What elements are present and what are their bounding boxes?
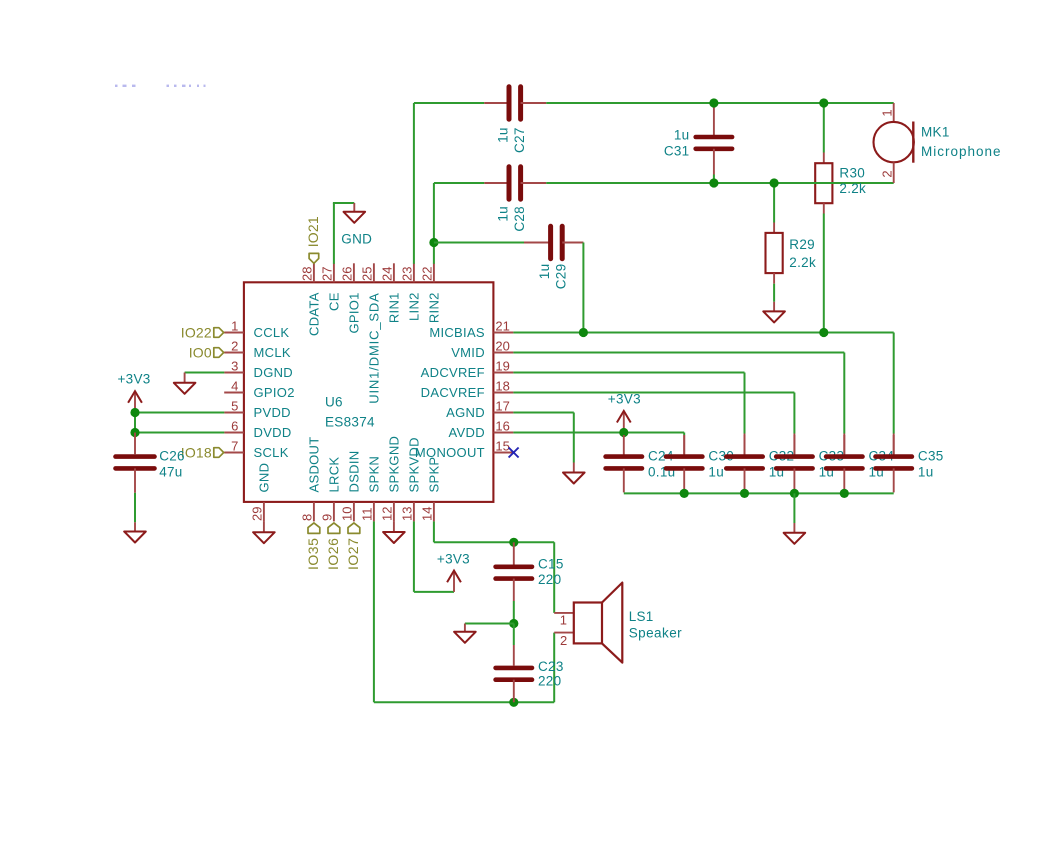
junction R29 top xyxy=(770,178,779,187)
svg-text:IO21: IO21 xyxy=(305,216,321,247)
capacitor C30 xyxy=(683,435,685,457)
svg-text:1: 1 xyxy=(880,109,895,116)
svg-text:29: 29 xyxy=(250,507,265,521)
pin 5 PVDD xyxy=(224,412,244,414)
svg-text:2: 2 xyxy=(560,633,567,648)
wire DVDD xyxy=(135,432,224,434)
svg-text:CCLK: CCLK xyxy=(254,325,290,340)
svg-text:SPKN: SPKN xyxy=(367,456,382,493)
svg-text:22: 22 xyxy=(420,267,435,281)
svg-text:11: 11 xyxy=(360,508,375,522)
svg-text:14: 14 xyxy=(420,507,435,521)
svg-text:DGND: DGND xyxy=(254,365,293,380)
svg-text:C15: C15 xyxy=(538,557,564,572)
svg-text:47u: 47u xyxy=(159,465,182,480)
IC U6 ES8374 xyxy=(244,282,494,502)
pin 14 SPKP xyxy=(433,502,435,522)
svg-text:+3V3: +3V3 xyxy=(608,391,641,406)
svg-text:19: 19 xyxy=(495,358,509,373)
wire to C29 xyxy=(434,242,524,244)
wire SPKP net xyxy=(433,521,435,542)
pin 10 DSDIN xyxy=(353,502,355,522)
svg-text:GND: GND xyxy=(257,463,272,493)
pin 4 GPIO2 xyxy=(224,392,244,394)
junction C31 top xyxy=(709,98,718,107)
svg-text:C29: C29 xyxy=(554,264,569,290)
svg-text:SPKVDD: SPKVDD xyxy=(407,437,422,492)
pin 11 SPKN xyxy=(373,502,375,522)
ground DGND xyxy=(184,373,186,383)
svg-text:C27: C27 xyxy=(512,127,527,153)
junction C31 bottom xyxy=(709,178,718,187)
svg-text:C23: C23 xyxy=(538,659,564,674)
pin 27 CE xyxy=(333,263,335,282)
svg-text:26: 26 xyxy=(340,267,355,281)
svg-text:IO0: IO0 xyxy=(189,344,212,360)
svg-text:8: 8 xyxy=(300,514,315,521)
junction SPKP/C15 xyxy=(509,538,518,547)
svg-text:R29: R29 xyxy=(789,237,815,252)
wire C28 row across R30 xyxy=(810,182,840,184)
pin 19 ADCVREF xyxy=(493,372,513,374)
svg-text:5: 5 xyxy=(231,398,238,413)
resistor R29 xyxy=(773,183,775,223)
svg-text:10: 10 xyxy=(340,507,355,521)
wire MICBIAS net xyxy=(513,332,893,334)
svg-text:IO22: IO22 xyxy=(181,324,212,340)
ground speaker mid xyxy=(464,624,466,632)
svg-text:GPIO2: GPIO2 xyxy=(254,385,295,400)
svg-text:2.2k: 2.2k xyxy=(839,181,866,196)
capacitor C31 xyxy=(713,105,715,135)
pin 17 AGND xyxy=(493,412,513,414)
svg-text:CDATA: CDATA xyxy=(307,292,322,336)
svg-text:SPKP: SPKP xyxy=(427,457,442,493)
pin 23 LIN2 xyxy=(413,263,415,282)
svg-text:1u: 1u xyxy=(674,128,690,143)
ground cap bank xyxy=(793,493,795,523)
capacitor C23 xyxy=(513,624,515,646)
svg-text:DSDIN: DSDIN xyxy=(347,451,362,493)
capacitor C26 xyxy=(134,433,136,455)
svg-text:ES8374: ES8374 xyxy=(325,414,375,429)
svg-text:U6: U6 xyxy=(325,395,343,410)
wire AVDD net xyxy=(513,432,684,434)
pin 16 AVDD xyxy=(493,432,513,434)
svg-text:220: 220 xyxy=(538,572,561,587)
svg-text:LRCK: LRCK xyxy=(327,457,342,493)
speaker LS1 xyxy=(554,612,574,614)
wire DGND xyxy=(185,372,225,374)
pin 13 SPKVDD xyxy=(413,502,415,522)
wire SPKVDD net xyxy=(413,521,415,592)
pin 1 CCLK xyxy=(224,332,244,334)
svg-text:IO18: IO18 xyxy=(181,444,212,460)
svg-text:4: 4 xyxy=(231,378,238,393)
svg-text:LIN2: LIN2 xyxy=(407,292,422,321)
wire AGND net xyxy=(513,412,573,414)
svg-text:1: 1 xyxy=(231,318,238,333)
svg-text:+3V3: +3V3 xyxy=(118,372,151,387)
svg-text:6: 6 xyxy=(231,418,238,433)
resistor R30 xyxy=(823,103,825,153)
svg-text:GND: GND xyxy=(341,231,372,246)
junction C15/C23/gnd xyxy=(509,619,518,628)
junction PVDD xyxy=(130,408,139,417)
capacitor C35 xyxy=(893,435,895,457)
wire C27 row right xyxy=(546,102,893,104)
svg-text:DVDD: DVDD xyxy=(254,425,292,440)
pin 24 RIN1 xyxy=(393,263,395,282)
svg-text:1u: 1u xyxy=(708,465,724,480)
svg-text:SCLK: SCLK xyxy=(254,445,289,460)
wire C28 row left xyxy=(434,182,484,184)
svg-text:1u: 1u xyxy=(496,206,511,222)
pin 25 UIN1/DMIC_SDA xyxy=(373,263,375,282)
svg-text:3: 3 xyxy=(231,358,238,373)
svg-text:16: 16 xyxy=(495,418,509,433)
svg-text:IO35: IO35 xyxy=(305,538,321,570)
svg-text:GPIO1: GPIO1 xyxy=(347,292,362,333)
pin 26 GPIO1 xyxy=(353,263,355,282)
svg-text:2: 2 xyxy=(879,170,894,177)
power +3V3 bottom xyxy=(453,571,455,592)
svg-text:25: 25 xyxy=(360,267,375,281)
svg-text:SPKGND: SPKGND xyxy=(387,436,402,493)
pin 21 MICBIAS xyxy=(493,332,513,334)
svg-text:12: 12 xyxy=(380,507,395,521)
ground under R29 xyxy=(773,302,775,312)
ground pin29 xyxy=(263,521,265,532)
svg-text:RIN1: RIN1 xyxy=(387,292,402,323)
svg-text:C31: C31 xyxy=(664,144,690,159)
pin 9 LRCK xyxy=(333,502,335,522)
pin 8 ASDOUT xyxy=(313,502,315,522)
junction DVDD xyxy=(130,428,139,437)
wire C29 to MICBIAS xyxy=(582,243,584,333)
svg-text:2.2k: 2.2k xyxy=(789,255,816,270)
svg-text:1u: 1u xyxy=(918,465,934,480)
wire C28 row right xyxy=(546,182,893,184)
junction R30 top xyxy=(819,98,828,107)
svg-text:Speaker: Speaker xyxy=(629,626,682,641)
pin 12 SPKGND xyxy=(393,502,395,522)
svg-text:IO26: IO26 xyxy=(325,538,341,570)
junction bank xyxy=(840,489,849,498)
svg-text:Microphone: Microphone xyxy=(921,144,1002,159)
wire pin23 to C27 row xyxy=(413,103,415,264)
svg-text:AGND: AGND xyxy=(446,405,485,420)
svg-text:RIN2: RIN2 xyxy=(427,292,442,323)
pin 3 DGND xyxy=(224,372,244,374)
svg-text:DACVREF: DACVREF xyxy=(421,385,485,400)
capacitor C32 xyxy=(744,435,746,457)
capacitor C15 xyxy=(513,542,515,565)
wire 3v3 vertical xyxy=(134,413,136,433)
svg-text:21: 21 xyxy=(495,318,509,333)
svg-text:MCLK: MCLK xyxy=(254,345,291,360)
svg-text:1u: 1u xyxy=(496,127,511,143)
svg-text:1: 1 xyxy=(560,613,567,628)
svg-text:13: 13 xyxy=(400,507,415,521)
ground GND xyxy=(353,203,355,212)
svg-text:27: 27 xyxy=(320,267,335,281)
svg-text:C26: C26 xyxy=(159,449,185,464)
ground under C26 xyxy=(134,522,136,531)
svg-text:MK1: MK1 xyxy=(921,125,950,140)
pin 15 MONOOUT xyxy=(493,452,513,454)
svg-text:2: 2 xyxy=(231,338,238,353)
power +3V3 left xyxy=(134,391,136,412)
svg-text:18: 18 xyxy=(495,378,509,393)
ground AGND xyxy=(573,463,575,473)
pin 29 GND xyxy=(263,502,265,522)
svg-text:C28: C28 xyxy=(512,206,527,232)
capacitor C28 xyxy=(484,182,507,184)
wire PVDD xyxy=(135,412,224,414)
microphone MK1 xyxy=(893,103,895,122)
pin 20 VMID xyxy=(493,352,513,354)
svg-text:7: 7 xyxy=(231,438,238,453)
svg-text:20: 20 xyxy=(495,338,509,353)
svg-text:23: 23 xyxy=(400,267,415,281)
capacitor C29 xyxy=(524,242,549,244)
wire to speaker ground xyxy=(465,623,514,625)
junction SPKN/C23 xyxy=(509,698,518,707)
svg-text:AVDD: AVDD xyxy=(449,425,485,440)
svg-text:220: 220 xyxy=(538,673,561,688)
wire cap bank bottom xyxy=(624,492,894,494)
svg-text:1u: 1u xyxy=(537,264,552,280)
svg-text:LS1: LS1 xyxy=(629,609,654,624)
wire C27 row left xyxy=(414,102,484,104)
junction bank xyxy=(790,489,799,498)
capacitor C34 xyxy=(843,435,845,457)
wire SPKN net xyxy=(373,521,375,702)
pin 2 MCLK xyxy=(224,352,244,354)
junction MICBIAS/R30 xyxy=(819,328,828,337)
capacitor C27 xyxy=(484,102,507,104)
capacitor C33 xyxy=(793,435,795,457)
pin 7 SCLK xyxy=(224,452,244,454)
wire VMID net xyxy=(513,352,844,354)
wire pin27 to GND xyxy=(333,203,335,264)
svg-text:24: 24 xyxy=(380,267,395,281)
junction pin22/C29 xyxy=(429,238,438,247)
pin 28 CDATA xyxy=(313,263,315,282)
no-connect MONOOUT xyxy=(509,448,519,458)
svg-text:MICBIAS: MICBIAS xyxy=(429,325,485,340)
pin 18 DACVREF xyxy=(493,392,513,394)
svg-text:9: 9 xyxy=(320,514,335,521)
svg-text:R30: R30 xyxy=(839,166,865,181)
pin 22 RIN2 xyxy=(433,263,435,282)
svg-text:15: 15 xyxy=(495,438,509,453)
junction bank xyxy=(680,489,689,498)
power +3V3 mid xyxy=(623,411,625,433)
svg-text:ASDOUT: ASDOUT xyxy=(307,437,322,493)
wire DACVREF net xyxy=(513,392,794,394)
svg-text:CE: CE xyxy=(327,292,342,311)
svg-text:17: 17 xyxy=(495,398,509,413)
svg-text:IO27: IO27 xyxy=(345,538,361,570)
svg-text:28: 28 xyxy=(300,267,315,281)
faint artifact marks xyxy=(115,85,118,87)
svg-text:VMID: VMID xyxy=(451,345,485,360)
svg-text:MONOOUT: MONOOUT xyxy=(415,445,485,460)
junction AVDD/C24 xyxy=(619,428,628,437)
pin 6 DVDD xyxy=(224,432,244,434)
svg-text:UIN1/DMIC_SDA: UIN1/DMIC_SDA xyxy=(367,292,382,403)
ground SPKGND xyxy=(393,521,395,532)
svg-text:ADCVREF: ADCVREF xyxy=(421,365,485,380)
svg-text:PVDD: PVDD xyxy=(254,405,291,420)
junction bank xyxy=(740,489,749,498)
svg-text:C35: C35 xyxy=(918,449,944,464)
svg-text:+3V3: +3V3 xyxy=(437,552,470,567)
wire ADCVREF net xyxy=(513,372,744,374)
wire pin22 to C28 row xyxy=(433,183,435,264)
junction MICBIAS/C29 xyxy=(579,328,588,337)
capacitor C24 xyxy=(623,435,625,457)
